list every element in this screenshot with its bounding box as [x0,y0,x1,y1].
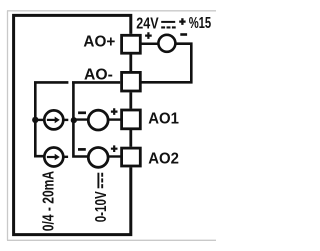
svg-text:0-10V: 0-10V [93,191,110,222]
supply plus sign [145,32,152,39]
wire left rail (mA loop) [35,82,68,156]
svg-text:0/4 - 20mA: 0/4 - 20mA [40,171,57,232]
voltmeter minus sign 1 [78,111,86,114]
voltmeter plus sign 1 [111,108,118,115]
svg-text:%15: %15 [189,15,212,32]
DC symbol top dashed line [161,26,176,28]
plus sign before %15 [179,18,185,25]
svg-text:AO+: AO+ [83,34,115,51]
wire stub right of mA meter 1 [63,119,68,121]
mA meter circle 2 [44,148,63,167]
terminal AO1 [122,110,141,129]
junction dot left rail [32,117,38,123]
svg-text:24V: 24V [136,16,159,33]
voltmeter minus sign 2 [78,148,86,151]
terminal AO2 [122,148,141,166]
arrow inside mA meter 2 [47,154,60,161]
voltmeter circle 2 [88,148,108,168]
mA meter circle 1 [44,110,63,129]
arrow inside mA meter 1 [47,117,60,124]
wire AO+ to supply [141,42,159,45]
wire voltmeter 2 to AO2 [107,155,121,157]
DC symbol rotated dashed line [101,173,103,190]
DC symbol top solid line [161,21,175,23]
junction dot AO- branch [71,117,77,123]
wire supply to AO- [141,44,191,83]
supply 24V source circle [158,35,175,52]
wire terminal chain AO+ to AO- [129,54,132,71]
wire rail to mA meter 1 [35,119,44,121]
wire AO- to voltmeter rail [72,82,120,156]
svg-text:AO-: AO- [84,67,113,84]
voltmeter circle 1 [88,110,108,130]
terminal AO- [122,72,141,91]
terminal AO+ [122,35,141,53]
module outline [14,15,131,234]
table frame (gray) [7,11,216,241]
wire terminal chain AO1 to AO2 [129,130,132,147]
wire stub right of mA meter 2 [63,156,68,158]
voltmeter plus sign 2 [111,145,118,152]
svg-text:AO1: AO1 [148,111,179,128]
wire voltmeter 1 to AO1 [107,118,121,120]
wire terminal chain AO- to AO1 [129,92,132,108]
DC symbol rotated solid line [97,173,99,189]
supply minus sign [180,33,187,36]
wire branch to voltmeter 1 [73,118,89,120]
svg-text:AO2: AO2 [148,151,179,168]
